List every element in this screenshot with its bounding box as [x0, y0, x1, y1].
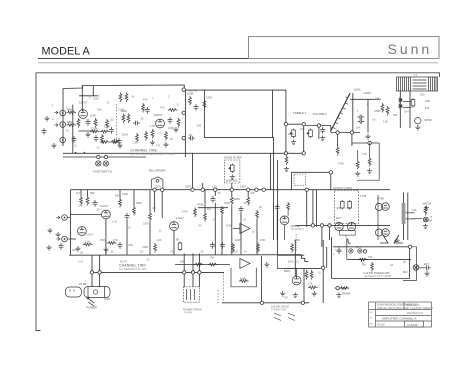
node fb	[329, 171, 332, 174]
wire ch2 c13	[240, 213, 242, 255]
wire splitload row	[352, 142, 379, 144]
wire diode stub	[346, 238, 348, 260]
resistor R32	[107, 242, 117, 245]
capacitor C25	[109, 127, 114, 134]
wire splitter row	[331, 132, 360, 134]
wire ch2 grid a	[80, 190, 82, 196]
jack footswitch a	[96, 161, 101, 166]
transformer T1 core	[397, 77, 438, 91]
svg-text:MATCH: MATCH	[423, 203, 432, 206]
svg-text:1K: 1K	[66, 130, 69, 133]
svg-text:CK: CK	[370, 318, 374, 320]
wire splitter vert	[352, 93, 354, 132]
output tubes dashed box	[335, 191, 359, 224]
wire treble drop	[285, 90, 287, 154]
svg-text:3 WIRE GND: 3 WIRE GND	[271, 308, 287, 312]
ground tone a	[291, 140, 296, 145]
pot volume P2	[307, 129, 313, 139]
ground ch1 in b	[51, 143, 56, 148]
svg-text:6AN8: 6AN8	[354, 88, 361, 92]
svg-text:1.2V: 1.2V	[212, 185, 218, 189]
wire volume row	[304, 125, 331, 127]
ground speaker	[423, 224, 428, 229]
resistor R13 diagonal	[330, 93, 350, 132]
border frame left	[36, 73, 41, 331]
wire v9 col b	[284, 225, 286, 240]
resistor R4	[94, 118, 97, 128]
ground tone b	[320, 136, 325, 141]
svg-text:DR: DR	[370, 312, 374, 314]
node plate top	[182, 88, 185, 91]
tube V7 pair	[375, 229, 389, 237]
svg-text:SCALE: SCALE	[377, 324, 385, 327]
node spare	[336, 286, 339, 289]
wire bus drop d	[202, 183, 204, 190]
ground R50	[284, 167, 289, 172]
node splitload	[368, 141, 371, 144]
resistor R29	[247, 196, 250, 206]
node pt 2	[191, 271, 194, 274]
ground mid ch1	[117, 143, 122, 148]
wire driver plate	[350, 98, 381, 100]
resistor R44	[358, 258, 368, 261]
svg-text:CHANNEL TWO: CHANNEL TWO	[119, 264, 146, 268]
capacitor C2	[112, 139, 119, 144]
capacitor C26	[168, 117, 173, 124]
capacitor C6	[188, 136, 195, 141]
node mains 2	[98, 271, 101, 274]
svg-text:REVISED 6-70: REVISED 6-70	[407, 312, 424, 315]
svg-text:5K: 5K	[176, 238, 180, 242]
ground mid hang	[264, 262, 269, 267]
ground meter	[415, 125, 420, 130]
transformer PT box	[183, 287, 199, 302]
wire psu mid row	[347, 259, 411, 261]
svg-text:.05: .05	[146, 259, 150, 262]
svg-text:SCHEMATIC: SCHEMATIC	[406, 304, 420, 307]
svg-text:KT88: KT88	[360, 194, 367, 198]
ground bias c	[312, 291, 317, 296]
tube V4	[335, 222, 343, 230]
svg-text:1M: 1M	[207, 207, 211, 211]
capacitor C20	[145, 107, 150, 114]
svg-text:5U4: 5U4	[404, 111, 409, 114]
resistor R57	[368, 157, 371, 167]
svg-text:6.8K: 6.8K	[240, 277, 246, 281]
socket box	[340, 231, 356, 236]
dot tb b	[84, 152, 86, 154]
wire ch2 r30	[256, 220, 258, 255]
wire output bus	[295, 224, 390, 226]
node bus 1	[153, 188, 156, 191]
resistor R1	[67, 111, 77, 114]
wire power col	[377, 195, 379, 240]
jack ext speaker	[413, 265, 419, 271]
diode D2	[398, 104, 403, 108]
wire humbal drop	[231, 183, 233, 196]
svg-text:TREBLE 1: TREBLE 1	[293, 111, 307, 115]
resistor R28	[230, 196, 233, 206]
svg-text:6.8K: 6.8K	[260, 238, 266, 242]
svg-text:P-4041: P-4041	[185, 311, 194, 314]
svg-text:47K: 47K	[362, 152, 367, 156]
svg-text:+: +	[335, 248, 337, 252]
ground ch2 d	[75, 246, 80, 251]
resistor R45	[371, 262, 374, 272]
resistor R5	[90, 130, 100, 133]
capacitor C16	[210, 242, 215, 249]
svg-text:47K: 47K	[113, 238, 118, 242]
wire bias right leg	[303, 269, 305, 301]
wire pt up c	[198, 254, 200, 273]
resistor R14	[381, 103, 384, 113]
svg-text:12AX7: 12AX7	[100, 204, 109, 208]
wire spare row	[335, 287, 349, 289]
wire bias drop a	[277, 160, 279, 255]
resistor R3	[77, 118, 80, 128]
svg-text:470: 470	[347, 206, 352, 210]
svg-text:10K: 10K	[308, 283, 313, 286]
wire ch2 r28	[231, 206, 233, 255]
svg-text:BIAS: BIAS	[284, 269, 290, 273]
wire bus drop h	[161, 190, 163, 218]
ground ch2 c	[46, 245, 51, 250]
svg-text:1.5K: 1.5K	[150, 124, 156, 128]
node bus 7	[247, 188, 250, 191]
ground driver	[365, 134, 370, 139]
resistor R52	[119, 93, 122, 103]
wire ch2 mid row	[198, 207, 228, 209]
wire bus drop f	[247, 190, 249, 196]
svg-text:250: 250	[97, 108, 102, 112]
capacitor C4	[133, 121, 140, 126]
svg-text:KT88: KT88	[377, 197, 384, 201]
svg-text:500: 500	[420, 93, 425, 97]
wire bias top row	[278, 254, 305, 256]
wire pt up b	[192, 254, 194, 273]
wire ch2 left edge	[70, 190, 72, 256]
wire vertical V1 plate	[184, 90, 186, 157]
svg-text:8417: 8417	[336, 216, 342, 220]
svg-text:1.5K: 1.5K	[112, 221, 117, 224]
svg-text:VOLUME 1: VOLUME 1	[313, 112, 328, 116]
resistor R59	[110, 141, 120, 144]
diode D3 circled	[349, 249, 353, 253]
svg-text:100: 100	[412, 208, 417, 212]
wire choke tap b	[406, 218, 415, 220]
svg-text:10K: 10K	[425, 99, 430, 103]
resistor R23	[133, 206, 136, 216]
node pt 3	[198, 271, 201, 274]
svg-text:.02: .02	[140, 117, 144, 121]
wire cathode row	[79, 130, 96, 132]
wire ch2 r27	[221, 216, 223, 255]
wire rect link a	[403, 101, 411, 103]
node bias col	[322, 266, 325, 269]
node tone e	[302, 152, 305, 155]
wire fb riser	[291, 172, 293, 189]
wire v2b row	[71, 238, 77, 240]
node mains 1	[90, 271, 93, 274]
wire bus drop k	[316, 190, 318, 227]
svg-text:220K: 220K	[234, 197, 241, 201]
svg-text:PILOT: PILOT	[120, 261, 128, 264]
wire bias col2	[326, 247, 328, 268]
wire psu left edge	[331, 240, 333, 279]
svg-text:100K: 100K	[235, 238, 241, 242]
wire driver col2	[367, 99, 369, 132]
node pt 1	[183, 271, 186, 274]
wire pt drop b	[192, 272, 194, 287]
wire ch1 ground rail	[63, 153, 271, 189]
resistor R64	[168, 109, 178, 112]
svg-text:100K: 100K	[122, 192, 128, 196]
node bus 4	[201, 188, 204, 191]
triangle splitter B	[240, 259, 250, 269]
svg-text:SW: SW	[180, 260, 185, 264]
svg-text:.01: .01	[243, 201, 247, 205]
svg-text:220K: 220K	[294, 238, 300, 242]
ground match	[424, 206, 429, 211]
svg-text:1500: 1500	[104, 125, 110, 129]
wire spkr col	[409, 247, 411, 279]
svg-text:.01: .01	[176, 104, 180, 107]
ground R56	[355, 171, 360, 176]
tube V1A	[79, 110, 88, 119]
svg-text:220K: 220K	[93, 98, 99, 101]
svg-text:.01: .01	[243, 219, 247, 222]
node nfb	[408, 245, 411, 248]
resistor R66 diag	[347, 239, 351, 244]
svg-text:68K: 68K	[90, 191, 95, 195]
svg-text:8 OHM: 8 OHM	[424, 220, 432, 223]
wire power tubes col b	[407, 193, 409, 241]
svg-text:BAL DRIVER: BAL DRIVER	[149, 169, 166, 173]
wire splitterB box	[231, 268, 256, 287]
svg-text:TM: TM	[362, 263, 367, 267]
wire footswitch rail	[63, 156, 146, 158]
wire ch2 r23	[133, 190, 135, 206]
meter M1	[415, 118, 421, 124]
capacitor C19	[424, 265, 431, 270]
svg-text:AMPLIFIER, CHANNEL A: AMPLIFIER, CHANNEL A	[382, 316, 416, 320]
svg-text:.02: .02	[152, 206, 156, 210]
svg-text:.05: .05	[212, 219, 216, 222]
resistor R63	[145, 131, 148, 141]
wire J4 stub	[67, 217, 70, 219]
tube V3	[78, 227, 87, 236]
svg-text:100K: 100K	[168, 126, 174, 130]
resistor R51	[142, 103, 145, 113]
wire bus drop g	[154, 190, 156, 212]
resistor R38	[194, 263, 204, 266]
wire ch2 r24b	[149, 222, 151, 255]
svg-text:1M: 1M	[300, 127, 304, 131]
ground ch1 in a	[44, 116, 49, 121]
wire v9 grid	[287, 212, 289, 217]
svg-text:MODEL A: MODEL A	[42, 46, 91, 58]
resistor R55	[336, 146, 339, 156]
svg-text:.05: .05	[200, 250, 204, 254]
dashed link pt	[295, 234, 297, 251]
ground ch2 a	[47, 228, 52, 233]
ground ch1 input	[85, 132, 90, 137]
svg-text:1M: 1M	[372, 119, 375, 122]
svg-text:AMBURN INDUSTRIAL PARK TUALAT: AMBURN INDUSTRIAL PARK TUALATIN, OREGON	[377, 307, 433, 310]
svg-text:25/25: 25/25	[72, 248, 79, 252]
resistor R9	[151, 129, 154, 139]
wire mains drop a	[91, 272, 93, 287]
wire bias col	[322, 240, 324, 303]
diode D4 circled	[358, 249, 362, 253]
capacitor C24	[72, 136, 77, 143]
svg-text:330K: 330K	[142, 245, 148, 249]
svg-text:2A: 2A	[390, 263, 393, 267]
wire J5 stub	[67, 238, 70, 240]
svg-text:1K: 1K	[252, 231, 255, 234]
wire sec y right	[394, 235, 403, 243]
wire ac line row	[222, 302, 309, 304]
wire ot lead a	[399, 91, 401, 128]
wire ac drop mid	[261, 256, 263, 303]
wire pt up a	[183, 254, 185, 273]
wire mains up b	[99, 255, 101, 272]
hum balance box	[225, 160, 240, 183]
svg-text:3A SB: 3A SB	[79, 282, 86, 286]
wire speaker stub	[412, 218, 422, 220]
svg-text:220: 220	[78, 205, 83, 208]
title underline	[38, 58, 439, 60]
svg-text:CHANNEL ONE: CHANNEL ONE	[131, 149, 158, 153]
resistor R8	[127, 114, 130, 124]
svg-text:1K: 1K	[318, 272, 321, 275]
wire splitload edge	[357, 143, 379, 180]
resistor R20	[80, 196, 83, 206]
svg-text:22K: 22K	[375, 97, 380, 101]
node bus 3	[191, 188, 194, 191]
svg-text:10K: 10K	[157, 238, 162, 242]
resistor R34 box	[178, 242, 182, 252]
svg-text:TO V6 PIN 5: TO V6 PIN 5	[291, 228, 305, 231]
resistor R11	[189, 96, 192, 106]
wire ext stub	[419, 267, 424, 269]
svg-text:3.3M: 3.3M	[118, 108, 124, 112]
wire splitter out a	[337, 133, 339, 147]
svg-text:47K: 47K	[250, 191, 255, 195]
input jack J1	[60, 110, 66, 116]
svg-text:R: R	[345, 236, 347, 239]
svg-text:.02: .02	[158, 230, 162, 233]
pot treble P1	[290, 129, 296, 139]
svg-text:250K: 250K	[288, 132, 294, 136]
ground ch2 b	[55, 232, 60, 237]
svg-text:.05: .05	[96, 209, 100, 212]
input jack J3	[60, 137, 66, 143]
components above ch2 rail: resistor R33	[154, 243, 157, 253]
node bus 2	[161, 188, 164, 191]
wire bias link	[278, 255, 284, 268]
wire tone corner upper	[204, 138, 273, 240]
node tone a	[284, 123, 287, 126]
svg-text:ALL VOLTAGES MEASURED TO GND: ALL VOLTAGES MEASURED TO GND	[131, 153, 175, 156]
capacitor C17	[220, 242, 225, 249]
ground ch1 c	[173, 127, 178, 132]
capacitor C9	[358, 119, 365, 124]
svg-text:47K: 47K	[160, 107, 165, 110]
capacitor C21	[275, 204, 280, 211]
wire plate short	[79, 95, 98, 97]
svg-text:350V: 350V	[155, 185, 161, 189]
svg-text:BLK: BLK	[403, 271, 408, 274]
capacitor C14	[59, 243, 64, 250]
wire psu edge up	[331, 237, 333, 240]
ground R10	[163, 142, 168, 147]
capacitor C12	[211, 196, 216, 203]
svg-text:12AX7: 12AX7	[86, 234, 94, 237]
resistor R65	[177, 118, 180, 128]
arrow J4 tip	[56, 216, 60, 219]
svg-text:D-4043: D-4043	[408, 323, 418, 327]
wire ch2 bottom rail	[69, 254, 301, 257]
input jack J2	[60, 122, 66, 128]
dashed pt link	[217, 290, 219, 303]
resistor R47	[310, 270, 313, 280]
node bus 8	[305, 188, 308, 191]
wire ch1 input top	[63, 85, 184, 90]
node out bus b	[328, 224, 331, 227]
svg-text:500K: 500K	[122, 133, 128, 137]
svg-text:ALL READINGS AT 117V: ALL READINGS AT 117V	[119, 268, 147, 271]
svg-text:1.5K: 1.5K	[85, 240, 91, 244]
ground bias b	[293, 293, 298, 298]
resistor R48	[308, 286, 318, 289]
title block	[369, 302, 432, 327]
resistor R35	[232, 243, 235, 253]
svg-text:.02: .02	[110, 250, 114, 254]
svg-text:265V: 265V	[185, 185, 191, 189]
triangle splitter A	[240, 223, 250, 233]
dashed box presence	[294, 174, 305, 185]
resistor R24	[149, 212, 152, 222]
capacitor C1	[86, 119, 91, 126]
resistor R41	[341, 200, 345, 210]
wire splitload col a	[357, 150, 359, 160]
ground power	[394, 238, 399, 243]
node tone b	[302, 123, 305, 126]
node footswitch b	[104, 155, 107, 158]
svg-text:470: 470	[156, 145, 161, 148]
svg-text:1M: 1M	[198, 225, 201, 228]
svg-text:68K: 68K	[67, 108, 72, 112]
capacitor C7	[320, 127, 325, 134]
resistor R10	[165, 131, 168, 141]
svg-text:1K: 1K	[259, 205, 262, 209]
wire grid stub	[92, 85, 94, 96]
wire rail step	[302, 255, 309, 262]
wire tone row	[286, 123, 304, 125]
svg-text:.05: .05	[106, 102, 110, 105]
wire v1a col	[81, 86, 83, 112]
wire choke tap a	[406, 212, 415, 214]
svg-text:100K: 100K	[143, 223, 149, 226]
wire v9 col a	[276, 211, 278, 240]
wire vertical right drop	[272, 90, 274, 138]
wire v2a row	[71, 214, 102, 216]
svg-text:220K: 220K	[91, 127, 98, 131]
ground ext	[424, 271, 429, 276]
svg-text:47K: 47K	[143, 98, 148, 102]
svg-text:500K: 500K	[224, 201, 230, 205]
